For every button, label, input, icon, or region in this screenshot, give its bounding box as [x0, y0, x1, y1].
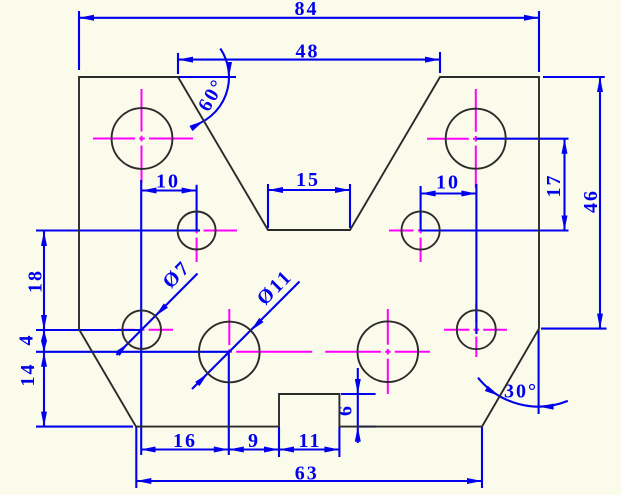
- centerline hole C6 vertical: [228, 309, 230, 353]
- extension line 17 bottom: [421, 229, 569, 231]
- hole C3 upper-left dia7: [178, 212, 216, 250]
- hole C8 lower-right dia7: [457, 310, 496, 349]
- dimension 10 right line: [421, 192, 477, 194]
- dimension 6 line: [357, 368, 359, 443]
- svg-text:14: 14: [17, 363, 39, 387]
- leader dia7 arrow lower: [115, 343, 128, 356]
- dimension 16 arrow right: [214, 447, 229, 453]
- extension line 18 top: [36, 229, 200, 231]
- dimension 11 arrow left: [279, 447, 294, 453]
- dimension 48 arrow right: [425, 57, 440, 63]
- dimension 15 line: [268, 189, 350, 191]
- extension line x279 notch: [278, 427, 280, 457]
- extension line 46 top: [543, 76, 605, 78]
- leader dia11 arrow upper: [251, 318, 264, 331]
- dimension 60deg arc: [191, 49, 229, 127]
- dimension 16-9-11 line: [141, 448, 340, 450]
- extension line 60deg along top edge: [178, 76, 236, 78]
- centerline holes C6 C7 horizontal: [227, 351, 431, 353]
- extension line 6 bottom: [358, 426, 376, 428]
- dimension 4 arrow bottom: [41, 341, 47, 352]
- extension line 10R left: [420, 186, 422, 231]
- svg-text:11: 11: [299, 430, 322, 452]
- dimension 10 left arrow left: [142, 188, 157, 194]
- dimension 10 right arrow left: [421, 191, 436, 197]
- extension line long vertical x476: [475, 184, 477, 334]
- leader dia7 arrow upper: [155, 303, 168, 316]
- extension line 30deg vertical: [538, 330, 540, 414]
- centerline hole C4 vertical: [420, 211, 422, 262]
- hole C2 top-right dia11: [446, 109, 506, 169]
- svg-text:4: 4: [16, 334, 38, 346]
- dimension 18-4-14 line: [43, 231, 45, 427]
- dimension 17 line: [563, 139, 565, 231]
- hole C4 upper-right dia7: [402, 211, 440, 249]
- dimension 9 arrow right: [264, 447, 279, 453]
- extension line 6 top: [341, 393, 376, 395]
- centerline hole C1 horizontal: [93, 138, 193, 140]
- svg-text:46: 46: [580, 189, 602, 213]
- dimension 30deg arrow at vertical: [539, 404, 554, 410]
- centerline hole C7 vertical: [387, 309, 389, 394]
- dimension 14 arrow bottom: [41, 412, 47, 427]
- svg-text:17: 17: [543, 174, 565, 198]
- dimension 30deg arrow at chamfer: [485, 386, 499, 396]
- centerline hole C4 horizontal: [389, 230, 443, 232]
- centerline hole C1 vertical: [141, 89, 143, 183]
- extension line 63 right: [481, 427, 483, 488]
- centerline hole C5 horizontal: [118, 329, 173, 331]
- part outline: [79, 77, 539, 427]
- leader dia11 arrow lower: [195, 373, 208, 386]
- dimension 16 arrow left: [141, 447, 156, 453]
- dimension 84 line: [79, 17, 539, 19]
- hole C1 top-left dia11: [112, 108, 173, 169]
- dimension 48 line: [178, 59, 440, 61]
- extension line 15 right: [349, 184, 351, 228]
- dimension 46 arrow bottom: [597, 314, 603, 329]
- centerline hole C2 horizontal: [427, 138, 477, 140]
- dimension 18 arrow bottom: [41, 315, 47, 330]
- dimension 63 line: [136, 480, 482, 482]
- extension line 48 left: [177, 53, 179, 74]
- extension line 84 left: [78, 11, 80, 70]
- dimension 63 arrow left: [136, 478, 151, 484]
- extension line 84 right: [538, 11, 540, 72]
- svg-text:6: 6: [335, 404, 357, 416]
- dimension 6 arrow bottom: [355, 427, 361, 442]
- dimension 18 arrow top: [41, 231, 47, 246]
- leader dia11 line: [192, 282, 300, 390]
- svg-text:18: 18: [24, 269, 46, 293]
- extension line 4 bottom: [36, 351, 229, 353]
- dimension 4 arrow top: [41, 330, 47, 341]
- dimension 10 left arrow right: [182, 188, 197, 194]
- dimension 60deg arrow at top edge: [226, 62, 232, 77]
- dimension 17 arrow bottom: [562, 216, 568, 231]
- dimension 15 arrow right: [335, 187, 350, 193]
- dimension 60deg arrow at slope: [189, 121, 204, 131]
- centerline hole C3 vertical: [196, 211, 198, 262]
- leader dia7 line: [116, 274, 197, 356]
- dimension 48 arrow left: [178, 57, 193, 63]
- dimension 84 arrow right: [524, 15, 539, 21]
- extension line 15 left: [267, 184, 269, 228]
- dimension 84 arrow left: [79, 15, 94, 21]
- dimension 9 arrow left: [229, 447, 244, 453]
- extension line long vertical x141: [140, 180, 142, 455]
- svg-text:10: 10: [436, 172, 460, 194]
- extension line 17 top: [476, 138, 568, 140]
- centerline hole C2 vertical: [475, 89, 477, 188]
- dimension 10 right arrow right: [461, 191, 476, 197]
- dimension 17 arrow top: [562, 139, 568, 154]
- extension line 48 right: [439, 52, 441, 73]
- centerline hole C8 vertical: [475, 303, 477, 357]
- svg-text:84: 84: [295, 0, 319, 20]
- centerline hole C8 horizontal: [444, 329, 507, 331]
- extension line 63 left: [135, 427, 137, 488]
- extension line x228 bottom: [228, 352, 230, 455]
- centerline hole C3 horizontal: [176, 230, 237, 232]
- extension line 18 bottom: [36, 329, 142, 331]
- dimension 30deg arc: [478, 378, 568, 407]
- dimension 63 arrow right: [467, 478, 482, 484]
- dimension 11 arrow right: [324, 447, 339, 453]
- hole C6 lower dia11: [199, 322, 260, 383]
- svg-text:15: 15: [296, 169, 320, 191]
- hole C7 lower-mid dia11: [358, 321, 419, 382]
- dimension 15 arrow left: [268, 187, 283, 193]
- svg-text:63: 63: [295, 463, 319, 485]
- dimension 6 arrow top: [355, 379, 361, 394]
- svg-text:9: 9: [248, 430, 260, 452]
- svg-text:48: 48: [296, 40, 320, 62]
- extension line 14 bottom: [36, 426, 133, 428]
- hole C5 lower-left dia7: [122, 310, 161, 349]
- svg-text:10: 10: [156, 171, 180, 193]
- extension line 46 bottom: [541, 328, 607, 330]
- dimension 14 arrow top: [41, 352, 47, 367]
- dimension 46 line: [599, 77, 601, 329]
- dimension 10 left line: [142, 189, 197, 191]
- extension line x339 notch: [338, 427, 340, 457]
- svg-text:16: 16: [173, 430, 197, 452]
- extension line 10L right: [196, 185, 198, 231]
- svg-text:30°: 30°: [504, 381, 538, 403]
- dimension 46 arrow top: [597, 77, 603, 92]
